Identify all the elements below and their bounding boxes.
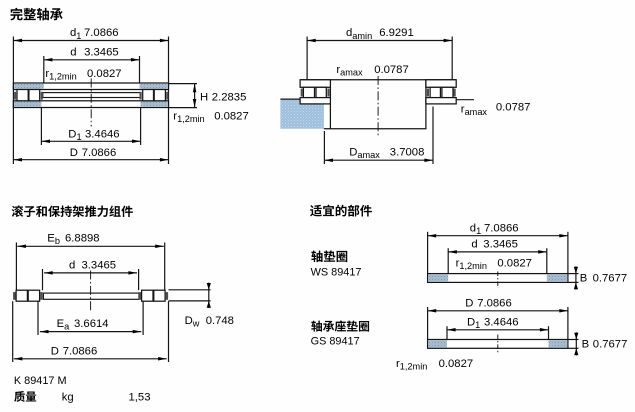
svg-text:1,53: 1,53 [129,392,151,404]
svg-text:3.3465: 3.3465 [84,47,119,59]
svg-text:GS 89417: GS 89417 [311,335,360,347]
svg-text:D: D [51,346,59,358]
svg-text:kg: kg [62,392,74,404]
svg-text:d: d [70,47,76,59]
svg-text:0.0787: 0.0787 [374,64,409,76]
svg-text:D: D [465,297,473,309]
svg-text:0.0827: 0.0827 [214,111,249,123]
svg-text:WS 89417: WS 89417 [311,266,362,278]
svg-text:0.7677: 0.7677 [593,273,628,285]
svg-text:B: B [582,339,590,351]
svg-text:d: d [69,259,75,271]
svg-text:K 89417 M: K 89417 M [14,375,67,387]
svg-text:0.7677: 0.7677 [593,339,628,351]
svg-text:6.9291: 6.9291 [379,27,414,39]
svg-text:0.748: 0.748 [206,315,234,327]
svg-text:7.0866: 7.0866 [82,147,117,159]
svg-text:d: d [471,239,477,251]
svg-text:2.2835: 2.2835 [212,91,247,103]
svg-text:3.4646: 3.4646 [484,317,519,329]
svg-text:D: D [70,147,78,159]
svg-text:0.0787: 0.0787 [496,101,531,113]
svg-text:3.3465: 3.3465 [483,239,518,251]
svg-text:3.7008: 3.7008 [390,147,425,159]
svg-text:7.0866: 7.0866 [84,27,119,39]
svg-text:7.0866: 7.0866 [63,346,98,358]
svg-text:B: B [580,273,588,285]
svg-text:7.0866: 7.0866 [477,297,512,309]
svg-text:H: H [200,91,208,103]
svg-text:3.3465: 3.3465 [82,259,117,271]
svg-text:0.0827: 0.0827 [497,258,532,270]
svg-text:0.0827: 0.0827 [87,68,122,80]
svg-text:0.0827: 0.0827 [439,358,474,370]
svg-text:3.6614: 3.6614 [74,318,109,330]
svg-text:6.8898: 6.8898 [65,232,100,244]
svg-text:7.0866: 7.0866 [484,223,519,235]
svg-text:3.4646: 3.4646 [85,128,120,140]
